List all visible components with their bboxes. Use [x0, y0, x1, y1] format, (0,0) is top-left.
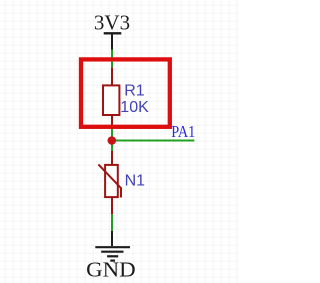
svg-text:PA1: PA1	[171, 123, 195, 141]
svg-text:3V3: 3V3	[94, 11, 130, 35]
wire green segment from box to junction	[111, 129, 113, 151]
power port 3V3 bar symbol	[104, 32, 122, 34]
resistor R1 body	[103, 85, 119, 115]
varistor N1 body	[105, 165, 118, 197]
wire horizontal green to PA1	[112, 140, 194, 142]
ground bar 1	[95, 246, 130, 248]
ground bar 4	[110, 260, 115, 262]
svg-text:GND: GND	[86, 257, 136, 281]
pin 2 of R1 (dark red)	[111, 115, 113, 129]
ground bar 3	[107, 255, 118, 257]
junction dot	[108, 136, 117, 145]
pin 2 of N1 (dark red)	[111, 198, 113, 215]
ground stem (black)	[111, 231, 113, 246]
pin 1 of R1 (dark red)	[111, 67, 113, 85]
varistor N1 diagonal stroke	[98, 164, 121, 197]
wire green segment to R1 pin	[111, 50, 113, 68]
svg-text:N1: N1	[125, 173, 146, 190]
wire stub from power bar (black)	[111, 33, 113, 49]
wire green segment to ground	[111, 214, 113, 231]
ground bar 2	[101, 251, 123, 253]
svg-text:R1: R1	[124, 83, 145, 100]
pin 1 of N1 (dark red)	[111, 151, 113, 165]
red selection highlight box around R1	[81, 59, 170, 126]
svg-text:10K: 10K	[120, 99, 149, 116]
